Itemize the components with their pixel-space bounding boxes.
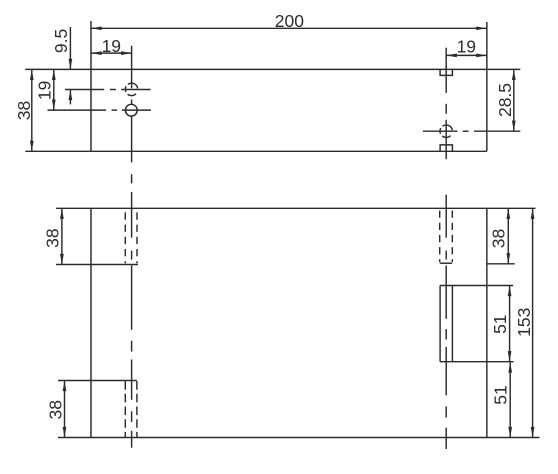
solid feature rectangle: bottom line with extension [440, 361, 513, 363]
extension line below top-left slot [56, 264, 138, 266]
svg-text:19: 19 [102, 36, 121, 56]
dim 38 top-right plan [507, 208, 509, 263]
plan view outline: right edge [486, 208, 488, 437]
solid feature rectangle right-middle: top line with extension [440, 285, 513, 287]
hidden slot bottom-left (dashed) [124, 381, 126, 437]
dim 19 top-left line [91, 52, 132, 54]
dim 38 top-left plan [61, 208, 63, 264]
dim 38 vertical line [31, 69, 33, 151]
svg-text:38: 38 [42, 228, 62, 247]
hole H2 circle [125, 104, 137, 116]
extension line below top-right slot [487, 263, 515, 265]
center line horizontal through hole H3 [423, 130, 469, 132]
bottom notch right [440, 145, 452, 151]
svg-text:9.5: 9.5 [51, 29, 71, 53]
top view outline: right edge with extension above [486, 22, 488, 151]
plan view outline: bottom edge with extensions [58, 437, 540, 439]
plan view outline: top edge with extensions [56, 207, 536, 209]
dim 200 line [91, 27, 487, 29]
svg-text:200: 200 [275, 11, 304, 31]
svg-text:38: 38 [489, 229, 509, 248]
dim 51 bottom-right plan [509, 362, 511, 438]
hidden slot top-right (dashed) [439, 211, 441, 263]
dim 19 vertical line [53, 69, 55, 110]
extension line above bottom-left slot [58, 380, 137, 382]
dim 19 top-right line [446, 54, 487, 56]
dim 9.5 line (outside arrows) [69, 27, 71, 104]
hole H3 broken circle (right) [440, 125, 452, 137]
plan view outline: left edge [90, 208, 92, 437]
solid feature rectangle: left edge [439, 286, 441, 362]
extension line for 28.5 at hole H3 [474, 130, 520, 132]
svg-text:19: 19 [35, 81, 55, 100]
hidden slot top-left (dashed) [124, 212, 126, 263]
center line horizontal through hole H2 [48, 109, 151, 111]
dim 51 right plan [509, 286, 511, 362]
dim 153 line [532, 208, 534, 437]
center line vertical left (x=131.6) [131, 46, 133, 448]
top view outline: bottom edge with left extension [25, 150, 486, 152]
svg-text:51: 51 [491, 385, 511, 404]
top view outline: top edge with extension lines [25, 68, 520, 70]
dim 28.5 line [513, 69, 515, 131]
center line vertical right (x=446.2) [445, 48, 447, 449]
svg-text:19: 19 [457, 36, 476, 56]
hole H1 broken circle [125, 83, 137, 95]
svg-text:51: 51 [490, 314, 510, 333]
top notch right [440, 69, 452, 75]
svg-text:38: 38 [14, 101, 34, 120]
center line horizontal through hole H1 [65, 89, 151, 91]
svg-text:153: 153 [514, 308, 534, 337]
svg-text:38: 38 [46, 400, 66, 419]
svg-text:28.5: 28.5 [495, 83, 515, 117]
solid feature rectangle: inner edge [451, 286, 453, 362]
top view outline: left edge with extension above [90, 21, 92, 151]
dim 38 bottom-left plan [64, 381, 66, 438]
